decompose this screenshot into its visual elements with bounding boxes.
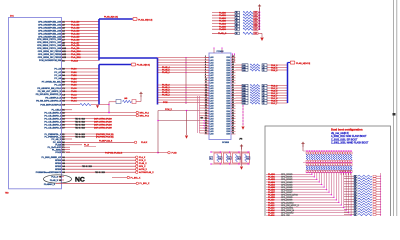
svg-text:G6: G6 xyxy=(62,172,65,174)
svg-text:27: 27 xyxy=(205,123,207,125)
svg-text:PLA_B5: PLA_B5 xyxy=(71,35,80,38)
svg-text:D3: D3 xyxy=(62,115,64,117)
svg-text:16: 16 xyxy=(228,158,230,160)
svg-text:16: 16 xyxy=(354,214,356,216)
svg-text:PLAB5: PLAB5 xyxy=(219,25,227,28)
svg-text:CB02: CB02 xyxy=(226,88,230,90)
svg-text:SC3456: SC3456 xyxy=(222,142,229,144)
svg-text:CB07: CB07 xyxy=(226,101,230,103)
svg-text:CB00: CB00 xyxy=(226,108,230,110)
svg-text:PLAB_4: PLAB_4 xyxy=(162,94,171,97)
svg-text:G5: G5 xyxy=(62,169,65,171)
svg-text:48: 48 xyxy=(232,77,234,79)
svg-text:PLALX: PLALX xyxy=(141,141,148,144)
svg-text:H1: H1 xyxy=(59,177,61,179)
svg-text:59: 59 xyxy=(232,105,234,107)
svg-text:PLAB: PLAB xyxy=(172,151,178,154)
svg-text:21: 21 xyxy=(205,107,207,109)
svg-text:62: 62 xyxy=(232,112,234,114)
svg-text:SPIB3: SPIB3 xyxy=(55,169,62,171)
svg-text:TBD B 2 B23: TBD B 2 B23 xyxy=(75,124,85,126)
svg-text:PLA_X: PLA_X xyxy=(139,156,146,159)
svg-text:63: 63 xyxy=(232,115,234,117)
svg-text:28: 28 xyxy=(205,125,207,127)
svg-text:(PL/PWR_PLD_B): (PL/PWR_PLD_B) xyxy=(96,136,114,138)
svg-text:PLAB6: PLAB6 xyxy=(219,28,227,31)
svg-text:PC_CB_/BSPD_1: PC_CB_/BSPD_1 xyxy=(44,115,61,117)
svg-text:PC_CB_/BSPD_3: PC_CB_/BSPD_3 xyxy=(44,121,61,123)
svg-text:CB00: CB00 xyxy=(226,57,230,59)
svg-text:20: 20 xyxy=(205,105,207,107)
svg-text:PLAB2: PLAB2 xyxy=(219,17,227,20)
svg-text:CFG_DRAM/PCIE1_A05: CFG_DRAM/PCIE1_A05 xyxy=(38,35,62,38)
svg-text:52: 52 xyxy=(232,87,234,89)
svg-text:23: 23 xyxy=(205,112,207,114)
svg-text:PLAB1: PLAB1 xyxy=(219,14,227,17)
svg-text:PLA_B8: PLA_B8 xyxy=(71,44,80,47)
svg-text:16: 16 xyxy=(238,158,240,160)
svg-text:CFG_SRDS_PRTCL_S08: CFG_SRDS_PRTCL_S08 xyxy=(37,45,62,47)
svg-text:46: 46 xyxy=(232,72,234,74)
svg-text:CFG_SRDS_PRTCL_S09: CFG_SRDS_PRTCL_S09 xyxy=(37,48,62,50)
svg-text:PLA_B1: PLA_B1 xyxy=(71,24,80,27)
svg-text:PLAB3: PLAB3 xyxy=(268,181,276,184)
svg-text:ACPRGFLAB_X: ACPRGFLAB_X xyxy=(139,171,154,174)
svg-text:PD_DPLB/PD_SDSPKD_B: PD_DPLB/PD_SDSPKD_B xyxy=(36,94,62,96)
svg-text:PLC0: PLC0 xyxy=(71,88,77,90)
svg-text:CB00: CB00 xyxy=(226,134,230,136)
svg-text:PCA_X: PCA_X xyxy=(139,159,146,162)
svg-text:14: 14 xyxy=(205,89,207,91)
svg-text:CB04: CB04 xyxy=(226,118,230,120)
svg-text:57: 57 xyxy=(232,100,234,102)
svg-text:16: 16 xyxy=(236,33,238,35)
svg-text:PT_SYN/B_RD_SEL: PT_SYN/B_RD_SEL xyxy=(42,81,62,83)
svg-text:CFG_RW: CFG_RW xyxy=(281,215,290,216)
svg-text:CB02: CB02 xyxy=(226,113,230,115)
svg-text:PD_WR_AVT_AXSPD_B: PD_WR_AVT_AXSPD_B xyxy=(38,90,62,93)
svg-text:PLAB4: PLAB4 xyxy=(268,183,276,186)
svg-text:PLA_B6: PLA_B6 xyxy=(71,38,80,41)
svg-text:22: 22 xyxy=(263,70,265,72)
svg-text:PLC2: PLC2 xyxy=(71,94,77,96)
svg-text:51: 51 xyxy=(232,84,234,86)
svg-text:CB03: CB03 xyxy=(226,90,230,92)
svg-text:PLABGC_X: PLABGC_X xyxy=(44,183,56,186)
svg-text:CB04: CB04 xyxy=(226,93,230,95)
svg-text:PLA_X: PLA_X xyxy=(51,176,58,179)
svg-text:67: 67 xyxy=(232,125,234,127)
svg-text:CFG_SRDS_DIV_PEX11: CFG_SRDS_DIV_PEX11 xyxy=(38,54,62,56)
svg-text:A_0010_0111: NOR FLASH BOOT: A_0010_0111: NOR FLASH BOOT xyxy=(331,135,367,138)
svg-text:TBD B 4 B23: TBD B 4 B23 xyxy=(75,136,85,138)
svg-text:50: 50 xyxy=(232,82,234,84)
svg-text:TBD B 2 B23: TBD B 2 B23 xyxy=(75,121,85,123)
svg-text:PCAX: PCAX xyxy=(55,151,61,154)
svg-text:60: 60 xyxy=(232,107,234,109)
svg-text:PC/MMCBurstXXPDMACX: PC/MMCBurstXXPDMACX xyxy=(36,171,62,174)
svg-text:F3: F3 xyxy=(62,152,64,154)
svg-text:PC/PCM_PLAB_B: PC/PCM_PLAB_B xyxy=(105,151,123,154)
svg-text:SPIB1: SPIB1 xyxy=(55,163,62,165)
svg-text:E3: E3 xyxy=(62,139,64,141)
svg-text:70: 70 xyxy=(232,133,234,135)
svg-text:PLA13: PLA13 xyxy=(268,206,275,209)
svg-text:CFG_SRDS_PRTCL_S07: CFG_SRDS_PRTCL_S07 xyxy=(37,42,62,44)
svg-text:PLB1: PLB1 xyxy=(71,72,77,74)
svg-text:G3: G3 xyxy=(62,163,65,165)
svg-text:22: 22 xyxy=(205,110,207,112)
svg-text:55: 55 xyxy=(232,94,234,96)
svg-text:CB01: CB01 xyxy=(226,85,230,87)
svg-text:TBD B 2 B23: TBD B 2 B23 xyxy=(75,118,85,120)
svg-text:15: 15 xyxy=(205,92,207,94)
svg-text:CB08: CB08 xyxy=(226,103,230,105)
svg-text:PLA_B9: PLA_B9 xyxy=(71,47,80,50)
svg-text:CFG_SRDS_DIV_PEX10: CFG_SRDS_DIV_PEX10 xyxy=(38,51,62,53)
svg-text:D5: D5 xyxy=(62,121,64,123)
svg-text:CB08: CB08 xyxy=(226,78,230,80)
svg-text:PCM_BKPCA/HSPCX: PCM_BKPCA/HSPCX xyxy=(40,103,61,106)
svg-text:PC_A3: PC_A3 xyxy=(54,68,61,71)
svg-text:16: 16 xyxy=(236,29,238,31)
svg-text:49: 49 xyxy=(232,79,234,81)
svg-text:CB05: CB05 xyxy=(226,95,230,97)
svg-text:22: 22 xyxy=(263,103,265,105)
svg-text:56: 56 xyxy=(232,97,234,99)
svg-text:Dual boot configuration: Dual boot configuration xyxy=(331,127,363,131)
svg-text:PC_CB_/BSPD_4: PC_CB_/BSPD_4 xyxy=(44,123,61,126)
svg-text:CFG_SRDS_PRTCL_S06: CFG_SRDS_PRTCL_S06 xyxy=(37,39,62,41)
svg-text:44: 44 xyxy=(232,66,234,68)
svg-text:CB01: CB01 xyxy=(226,60,230,62)
svg-text:66: 66 xyxy=(232,123,234,125)
svg-text:DSP_STRC_PLD2: DSP_STRC_PLD2 xyxy=(94,118,112,120)
svg-text:PC_CB_/BSPD_5: PC_CB_/BSPD_5 xyxy=(44,127,61,129)
svg-text:PLC3: PLC3 xyxy=(71,98,77,100)
svg-text:CFG_SRDS_DIV_PEX12: CFG_SRDS_DIV_PEX12 xyxy=(38,57,62,59)
svg-text:PLB_2: PLB_2 xyxy=(271,70,278,72)
svg-text:PLAB6: PLAB6 xyxy=(268,188,276,191)
svg-text:WRL_PC2: WRL_PC2 xyxy=(140,115,150,117)
svg-text:CB05: CB05 xyxy=(226,121,230,123)
svg-text:CFG_DRAM/PCIE1_A01: CFG_DRAM/PCIE1_A01 xyxy=(38,23,62,26)
svg-text:PLA15: PLA15 xyxy=(268,212,275,215)
svg-text:16: 16 xyxy=(205,94,207,96)
svg-text:25: 25 xyxy=(205,117,207,119)
svg-text:D1: D1 xyxy=(62,110,64,112)
svg-text:CB07: CB07 xyxy=(226,126,230,128)
svg-text:10: 10 xyxy=(205,79,207,81)
svg-text:PLAB0: PLAB0 xyxy=(268,173,276,176)
svg-text:PLA16: PLA16 xyxy=(268,214,275,216)
svg-text:PC_A1: PC_A1 xyxy=(54,84,61,87)
svg-text:H1: H1 xyxy=(59,180,61,182)
svg-text:13: 13 xyxy=(205,87,207,89)
svg-text:CB06: CB06 xyxy=(226,98,230,100)
svg-text:18: 18 xyxy=(205,100,207,102)
svg-text:CFG_DRAM/PCIE1_A00: CFG_DRAM/PCIE1_A00 xyxy=(38,21,62,24)
svg-text:SPB_X: SPB_X xyxy=(139,166,146,168)
svg-text:CB09: CB09 xyxy=(226,106,230,108)
svg-text:DSP_STRC_PLD3: DSP_STRC_PLD3 xyxy=(94,121,112,123)
svg-text:16: 16 xyxy=(247,158,249,160)
svg-text:PCM_DATA/RPCM_DM: PCM_DATA/RPCM_DM xyxy=(39,59,61,62)
svg-text:PLC4: PLC4 xyxy=(71,100,77,103)
svg-text:PLA_B3: PLA_B3 xyxy=(71,29,80,32)
svg-text:TBD B 2 B23: TBD B 2 B23 xyxy=(82,166,92,168)
svg-text:PD_ABWPLD_B: PD_ABWPLD_B xyxy=(45,96,61,99)
svg-text:CB03: CB03 xyxy=(226,116,230,118)
svg-text:PLC_7: PLC_7 xyxy=(271,103,278,105)
svg-text:PLA14: PLA14 xyxy=(268,209,275,212)
svg-text:PLA_B11: PLA_B11 xyxy=(71,53,81,56)
svg-text:PLAB_X: PLAB_X xyxy=(139,162,147,165)
svg-text:G2: G2 xyxy=(62,160,65,162)
svg-text:B16: B16 xyxy=(243,103,246,105)
svg-text:31: 31 xyxy=(205,133,207,135)
svg-text:PLAB3: PLAB3 xyxy=(219,20,227,23)
svg-text:CB01: CB01 xyxy=(226,111,230,113)
svg-text:PL_BKL_X: PL_BKL_X xyxy=(131,177,141,179)
svg-text:PL_CELA: PL_CELA xyxy=(52,109,62,112)
svg-text:PLB3: PLB3 xyxy=(71,78,77,80)
svg-text:PC_CB_/BSPD_0: PC_CB_/BSPD_0 xyxy=(44,112,61,114)
svg-text:24: 24 xyxy=(205,115,207,117)
svg-text:53: 53 xyxy=(232,89,234,91)
svg-text:CB02: CB02 xyxy=(226,62,230,64)
svg-text:69: 69 xyxy=(232,130,234,132)
svg-text:PLAB5: PLAB5 xyxy=(268,186,276,189)
svg-text:64: 64 xyxy=(232,117,234,119)
svg-text:PD_RB_B/PD_ABGPIO_B: PD_RB_B/PD_ABGPIO_B xyxy=(36,100,61,103)
svg-text:DSP_STRC_PLD4: DSP_STRC_PLD4 xyxy=(94,123,112,126)
svg-text:CB08: CB08 xyxy=(226,129,230,131)
svg-text:CFG_DRAM/PCIE1_A02: CFG_DRAM/PCIE1_A02 xyxy=(38,26,62,29)
svg-text:CB04: CB04 xyxy=(226,67,230,69)
svg-text:PLAB_M[0:4]: PLAB_M[0:4] xyxy=(137,64,150,67)
svg-text:NC: NC xyxy=(75,177,85,184)
svg-text:CB06: CB06 xyxy=(226,73,230,75)
svg-text:TBD B 2 B23: TBD B 2 B23 xyxy=(95,172,105,174)
svg-text:PLA_B12: PLA_B12 xyxy=(71,56,81,59)
svg-text:CB09: CB09 xyxy=(226,80,230,82)
svg-text:PLB0: PLB0 xyxy=(71,69,77,71)
svg-text:PC3456: PC3456 xyxy=(217,51,224,53)
svg-text:PLA11: PLA11 xyxy=(268,201,275,204)
svg-text:CFG_DRAM/PCIE1_A04: CFG_DRAM/PCIE1_A04 xyxy=(38,32,62,35)
svg-text:17: 17 xyxy=(205,97,207,99)
svg-text:PLA_B10: PLA_B10 xyxy=(71,50,81,53)
svg-text:CFG_DRAM/PCIE1_A03: CFG_DRAM/PCIE1_A03 xyxy=(38,29,62,32)
svg-text:C_0001_1001: NAND FLASH BOOT: C_0001_1001: NAND FLASH BOOT xyxy=(331,141,369,144)
svg-text:SPIB2: SPIB2 xyxy=(55,166,62,168)
svg-text:61: 61 xyxy=(232,110,234,112)
svg-text:PLA10: PLA10 xyxy=(268,199,275,202)
svg-text:PLAB0: PLAB0 xyxy=(219,11,227,14)
svg-text:DSP_STRC_PLD5: DSP_STRC_PLD5 xyxy=(94,127,112,129)
svg-text:26: 26 xyxy=(205,120,207,122)
svg-text:CB00: CB00 xyxy=(226,83,230,85)
svg-text:PLA_B4: PLA_B4 xyxy=(71,32,80,35)
svg-text:ACPB_X: ACPB_X xyxy=(139,168,148,171)
svg-text:PLA13: PLA13 xyxy=(71,59,79,62)
svg-text:SPIB0: SPIB0 xyxy=(55,160,62,162)
svg-text:47: 47 xyxy=(232,74,234,76)
svg-text:G4: G4 xyxy=(62,166,65,168)
svg-text:PC_A4: PC_A4 xyxy=(54,74,61,77)
svg-text:PLB4: PLB4 xyxy=(71,81,77,84)
svg-text:D4: D4 xyxy=(62,118,64,120)
svg-text:19: 19 xyxy=(205,102,207,104)
svg-text:cfg_row_mtc[0:4]: cfg_row_mtc[0:4] xyxy=(331,132,349,135)
svg-text:PLC1: PLC1 xyxy=(71,91,77,93)
svg-text:G1: G1 xyxy=(62,157,65,159)
svg-text:PCM: PCM xyxy=(163,102,168,104)
svg-text:PLA_B7: PLA_B7 xyxy=(71,41,80,44)
svg-text:PLAB7: PLAB7 xyxy=(268,191,276,194)
svg-text:PLAB_S: PLAB_S xyxy=(218,32,227,35)
svg-text:D7: D7 xyxy=(62,127,64,129)
svg-text:16: 16 xyxy=(219,158,221,160)
svg-text:PC_AB_X: PC_AB_X xyxy=(52,138,62,141)
svg-text:CB05: CB05 xyxy=(226,70,230,72)
svg-text:PD_AB/GPIO_BM_CPLD: PD_AB/GPIO_BM_CPLD xyxy=(37,87,61,90)
svg-text:CB03: CB03 xyxy=(226,65,230,67)
svg-text:68: 68 xyxy=(232,128,234,130)
svg-text:PLAB8: PLAB8 xyxy=(268,194,276,197)
svg-text:12: 12 xyxy=(205,84,207,86)
svg-text:CB07: CB07 xyxy=(226,75,230,77)
svg-text:D6: D6 xyxy=(62,124,64,126)
svg-text:CB06: CB06 xyxy=(226,124,230,126)
svg-text:D2: D2 xyxy=(62,112,64,114)
svg-text:PC_CB_/BSPD_2: PC_CB_/BSPD_2 xyxy=(44,118,61,120)
svg-text:58: 58 xyxy=(232,102,234,104)
svg-text:PCM_X: PCM_X xyxy=(165,109,173,111)
svg-text:PC_A7: PC_A7 xyxy=(54,71,61,74)
svg-text:PLAB_M[0:13]: PLAB_M[0:13] xyxy=(138,19,152,22)
svg-text:PLAB_B[0:13]: PLAB_B[0:13] xyxy=(104,16,118,19)
svg-text:PLAB9: PLAB9 xyxy=(268,196,276,199)
svg-text:PLB2: PLB2 xyxy=(71,75,77,77)
svg-text:PLA12: PLA12 xyxy=(268,204,275,207)
svg-text:11: 11 xyxy=(205,82,207,84)
svg-text:TBD B 2 B23: TBD B 2 B23 xyxy=(75,127,85,129)
svg-text:PLAB2: PLAB2 xyxy=(268,178,276,181)
svg-text:PLA_B0: PLA_B0 xyxy=(71,21,80,24)
svg-text:WRL_PLA: WRL_PLA xyxy=(140,111,150,114)
svg-text:16: 16 xyxy=(210,158,212,160)
svg-text:PLAB1: PLAB1 xyxy=(268,176,276,179)
svg-text:45: 45 xyxy=(232,69,234,71)
svg-text:PLAB_X: PLAB_X xyxy=(50,179,59,182)
svg-text:PLAB_M[0:13]: PLAB_M[0:13] xyxy=(296,62,310,65)
svg-text:PLAB_6: PLAB_6 xyxy=(162,71,171,74)
svg-text:C_0100_0101: EFI BOOT: C_0100_0101: EFI BOOT xyxy=(331,139,358,141)
svg-text:30: 30 xyxy=(205,130,207,132)
svg-text:PL_BUS_/BSED_AX: PL_BUS_/BSED_AX xyxy=(42,156,62,159)
svg-text:29: 29 xyxy=(205,128,207,130)
svg-text:DCC: DCC xyxy=(10,16,15,18)
svg-text:PC_A6: PC_A6 xyxy=(54,77,61,80)
svg-text:PL_BRL_X: PL_BRL_X xyxy=(140,183,151,185)
svg-text:PLB5: PLB5 xyxy=(71,85,77,87)
svg-text:CB09: CB09 xyxy=(226,131,230,133)
svg-text:43: 43 xyxy=(232,64,234,66)
svg-text:B16: B16 xyxy=(243,70,246,72)
svg-text:PLAB4: PLAB4 xyxy=(219,23,227,26)
svg-text:54: 54 xyxy=(232,92,234,94)
svg-text:PLA_B2: PLA_B2 xyxy=(71,27,80,30)
svg-text:65: 65 xyxy=(232,120,234,122)
